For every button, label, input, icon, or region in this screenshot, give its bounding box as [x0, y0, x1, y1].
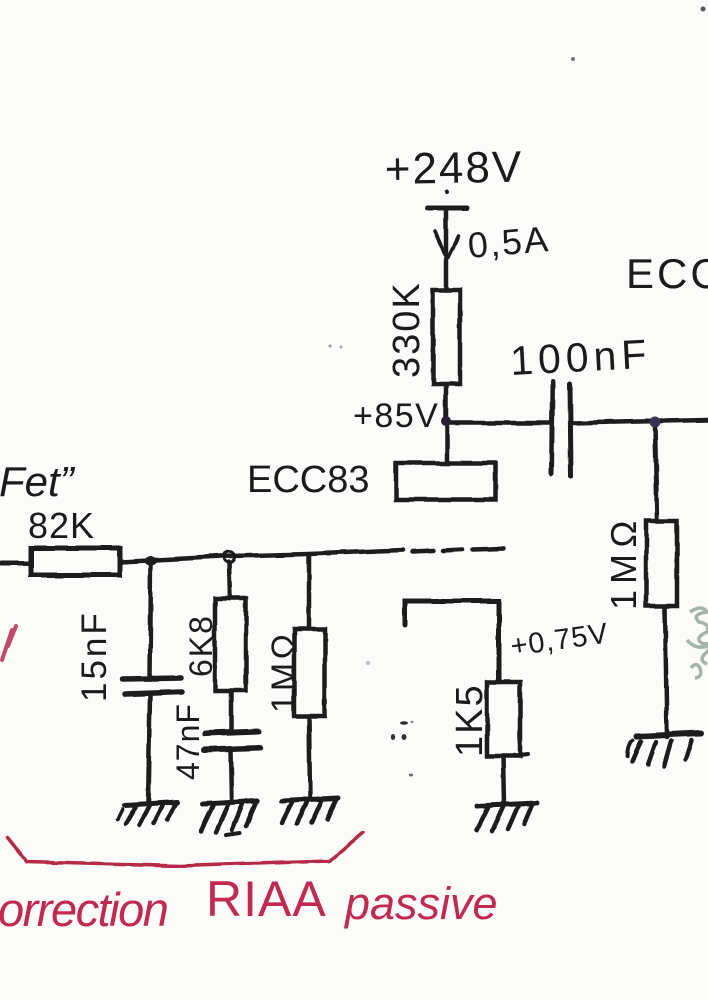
- triode U1 cathode: [405, 601, 499, 682]
- resistor 330K body: [433, 290, 460, 384]
- wire resistor 6K8 to capacitor 47nF: [229, 691, 234, 732]
- wire bus down to resistor 1M left: [307, 554, 312, 629]
- wire node B down to resistor 6K8: [229, 562, 230, 598]
- svg-text:330K: 330K: [386, 281, 428, 378]
- wire node +85V down to anode of triode U1: [445, 425, 450, 463]
- wire node +85V to capacitor 100nF left plate: [446, 421, 551, 426]
- ground under 1M left: [282, 798, 338, 824]
- capacitor 100nF right plate: [570, 384, 571, 476]
- capacitor 47nF plates: [204, 731, 260, 750]
- ground right: [627, 733, 701, 766]
- svg-text:100nF: 100nF: [509, 331, 652, 384]
- svg-text:Fet”: Fet”: [0, 458, 76, 505]
- svg-text:+85V: +85V: [353, 397, 439, 435]
- svg-text:RIAA: RIAA: [206, 871, 327, 927]
- capacitor 15nF plates: [123, 678, 183, 694]
- svg-text:+248V: +248V: [384, 143, 523, 194]
- ground under 1K5: [477, 803, 537, 831]
- svg-text:6K8: 6K8: [183, 614, 219, 677]
- triode U1 grid (dashed wire): [412, 549, 504, 552]
- current arrow 0,5A: [435, 231, 458, 257]
- ground under 15nF: [117, 802, 178, 825]
- wire node right down to resistor 1M right: [655, 425, 657, 521]
- svg-text:passive: passive: [343, 878, 498, 929]
- svg-text:1MΩ: 1MΩ: [265, 631, 303, 713]
- wire from +248V bar down to arrow: [444, 209, 449, 290]
- ground under 47nF: [201, 801, 257, 835]
- svg-text:1MΩ: 1MΩ: [603, 514, 644, 610]
- wire main bus from 82K to grid: [120, 550, 403, 562]
- svg-text:15nF: 15nF: [75, 610, 114, 702]
- node B open circle junction: [224, 552, 235, 563]
- wire node A down to capacitor 15nF: [150, 563, 151, 679]
- svg-text:correction: correction: [0, 883, 167, 936]
- svg-text:ECC: ECC: [626, 250, 708, 297]
- wire capacitor 15nF to ground: [148, 695, 150, 803]
- node output junction dot: [650, 417, 661, 428]
- resistor 1K5 body: [487, 682, 520, 756]
- wire resistor 1K5 to ground: [503, 756, 504, 804]
- node +85V junction dot: [441, 416, 451, 426]
- node +248V supply bar: [427, 190, 467, 208]
- green scribble right edge: [687, 608, 708, 678]
- wire resistor 330K to node +85V: [444, 384, 449, 422]
- wire resistor 1M right to ground: [665, 606, 667, 737]
- svg-text:0,5A: 0,5A: [466, 218, 551, 266]
- wire resistor 1M left to ground: [309, 716, 310, 799]
- capacitor 100nF left plate: [552, 382, 553, 474]
- svg-text:1K5: 1K5: [449, 683, 491, 757]
- svg-text:82K: 82K: [28, 505, 95, 546]
- triode U1 (ECC83) anode plate: [396, 463, 496, 500]
- node A junction dot: [144, 557, 158, 566]
- red brace annotation: [7, 833, 363, 866]
- red quote mark left edge: [2, 626, 16, 660]
- resistor 6K8 body: [215, 598, 246, 691]
- svg-text:ECC83: ECC83: [247, 459, 370, 501]
- resistor 82K body: [31, 548, 120, 575]
- resistor 1M right body: [646, 521, 677, 606]
- wire capacitor 100nF to right edge (output): [572, 420, 708, 423]
- svg-text:47nF: 47nF: [170, 703, 206, 780]
- wire input from left edge: [0, 561, 31, 566]
- resistor 1M left body: [294, 629, 325, 716]
- wire capacitor 47nF to ground: [231, 751, 232, 800]
